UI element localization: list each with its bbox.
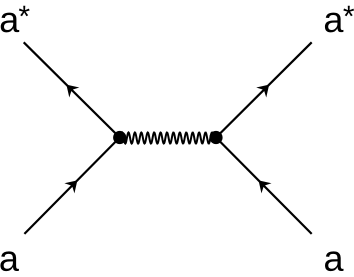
label * (of a*) top-left <box>19 6 30 17</box>
label a bottom-left <box>0 251 18 271</box>
label a bottom-right <box>325 251 343 271</box>
photon propagator (wavy line) <box>121 133 215 144</box>
arrowhead on top-left line <box>61 80 79 98</box>
wire: incoming fermion line a (bottom-right) <box>216 138 312 234</box>
arrowhead on top-right line <box>256 80 274 98</box>
wire: outgoing fermion line a* (top-right) <box>216 42 312 137</box>
label * (of a*) top-right <box>343 6 354 17</box>
wire: outgoing fermion line a* (top-left) <box>24 42 120 137</box>
arrowhead on bottom-left line <box>64 175 82 193</box>
wire: incoming fermion line a (bottom-left) <box>24 138 119 234</box>
label a (of a*) top-left <box>1 13 19 33</box>
vertex dot (left) <box>113 131 126 144</box>
label a (of a*) top-right <box>325 13 343 33</box>
vertex dot (right) <box>209 131 222 144</box>
arrowhead on bottom-right line <box>254 175 272 193</box>
